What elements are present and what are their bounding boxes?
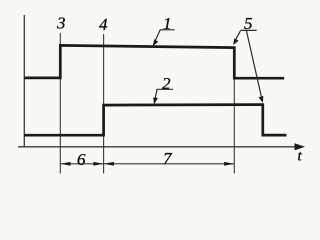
leader shelf of label 2 [154, 89, 173, 102]
leader shelf of label 5 [241, 29, 257, 31]
vertical axis line [23, 15, 25, 147]
leader arrowhead 5a [233, 38, 238, 45]
svg-text:4: 4 [99, 15, 108, 34]
dimension arrow 7 right [224, 162, 234, 166]
extension line at 7 right [233, 50, 235, 174]
dimension arrow 7 left [104, 162, 114, 166]
marker line 3 [59, 33, 61, 174]
waveform 2 [24, 105, 286, 136]
t axis [18, 146, 297, 148]
svg-text:2: 2 [162, 74, 171, 93]
t axis arrowhead [295, 143, 306, 150]
leader 5b to waveform 2 fall [247, 31, 263, 101]
dimension line 7 [104, 163, 235, 165]
leader shelf of label 1 [154, 30, 175, 45]
leader arrowhead 5b [259, 96, 264, 103]
svg-text:6: 6 [77, 150, 86, 169]
svg-text:3: 3 [56, 14, 66, 33]
dimension arrow 6 left [61, 162, 71, 166]
waveform 1 [24, 45, 284, 78]
leader arrowhead 1 [153, 39, 159, 46]
leader arrowhead 2 [153, 97, 158, 104]
dimension line 6 [60, 163, 103, 165]
leader 5a to waveform 1 fall [234, 31, 241, 44]
marker line 4 [103, 34, 105, 174]
dimension arrow 6 right [93, 162, 103, 166]
